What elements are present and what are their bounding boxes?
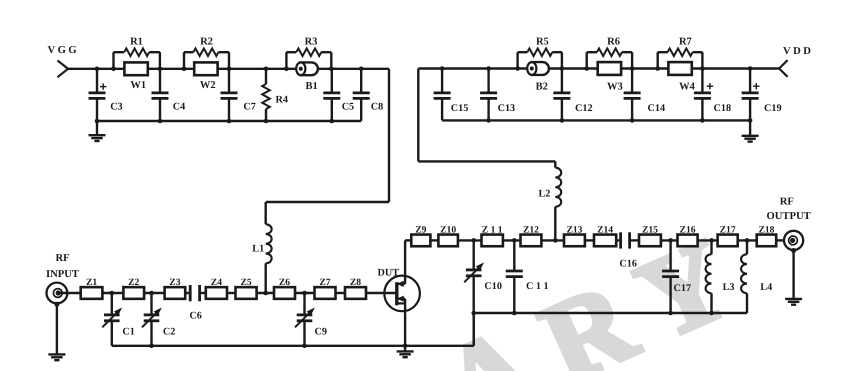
svg-text:VDD: VDD	[783, 46, 813, 57]
microstrip Z6	[274, 277, 295, 299]
microstrip Z13	[564, 225, 585, 247]
capacitor C12	[553, 69, 592, 123]
microstrip Z17	[718, 225, 738, 247]
svg-text:Z14: Z14	[597, 225, 613, 236]
svg-text:L1: L1	[252, 244, 264, 255]
wire	[776, 239, 784, 241]
ground under RF OUTPUT	[785, 248, 802, 305]
svg-text:R6: R6	[607, 37, 620, 48]
capacitor C8	[353, 67, 384, 122]
svg-text:C14: C14	[648, 103, 666, 114]
capacitor C16 (series)	[616, 232, 639, 269]
variable capacitor C2	[142, 293, 175, 348]
microstrip Z9	[411, 225, 430, 247]
svg-text:DUT: DUT	[378, 268, 400, 279]
svg-text:C17: C17	[674, 283, 692, 294]
svg-text:Z7: Z7	[319, 277, 330, 288]
trimmer W1	[111, 62, 162, 91]
svg-text:C7: C7	[243, 102, 255, 113]
svg-text:C9: C9	[315, 327, 327, 338]
svg-text:Z10: Z10	[440, 225, 456, 236]
svg-text:Z12: Z12	[523, 225, 539, 236]
svg-text:C8: C8	[371, 102, 383, 113]
svg-text:VGG: VGG	[48, 45, 80, 56]
svg-text:L4: L4	[760, 282, 772, 293]
wire	[257, 291, 274, 296]
svg-text:C3: C3	[110, 102, 122, 113]
resistor R1	[114, 37, 160, 69]
microstrip Z10	[438, 225, 458, 247]
capacitor C5	[323, 69, 354, 123]
inductor L3	[706, 240, 735, 315]
svg-text:OUTPUT: OUTPUT	[767, 211, 811, 222]
VGG input arrow	[58, 61, 69, 78]
ground under C19	[742, 120, 759, 141]
svg-text:C15: C15	[451, 103, 469, 114]
inductor L4	[741, 240, 772, 313]
svg-text:Z13: Z13	[566, 225, 582, 236]
capacitor C13	[480, 66, 515, 123]
microstrip Z2	[123, 277, 144, 299]
variable capacitor C10	[464, 240, 502, 345]
svg-text:W2: W2	[200, 80, 216, 91]
microstrip Z3	[165, 277, 186, 299]
svg-text:R1: R1	[130, 37, 143, 48]
wire	[227, 292, 236, 294]
svg-text:R5: R5	[536, 37, 549, 48]
ferrite bead B2	[515, 62, 564, 92]
svg-text:W1: W1	[130, 80, 146, 91]
capacitor C15	[434, 66, 469, 120]
wire left bias bottom bus	[97, 120, 361, 122]
wire VGG rail	[67, 68, 390, 70]
svg-text:W3: W3	[607, 82, 623, 93]
wire gate lead	[366, 292, 395, 294]
trimmer W4	[655, 62, 704, 92]
svg-text:C13: C13	[498, 103, 516, 114]
svg-text:B2: B2	[536, 82, 548, 93]
svg-text:Z9: Z9	[415, 225, 426, 236]
svg-text:C19: C19	[764, 103, 782, 114]
capacitor C19 (electrolytic)	[742, 66, 782, 123]
capacitor C18 (electrolytic)	[694, 69, 731, 123]
wire	[698, 238, 718, 243]
microstrip Z7	[315, 277, 336, 299]
RF INPUT connector	[47, 283, 81, 304]
resistor R7	[658, 37, 703, 69]
trimmer W3	[584, 62, 634, 92]
wire drain line	[405, 239, 411, 241]
microstrip Z4	[206, 277, 227, 299]
svg-text:Z4: Z4	[211, 277, 222, 288]
capacitor C6 (series)	[185, 285, 206, 322]
svg-text:Z15: Z15	[642, 225, 658, 236]
VDD output arrow	[779, 60, 788, 77]
wire ground bus lower	[112, 313, 474, 346]
svg-text:R7: R7	[679, 37, 692, 48]
capacitor C4	[152, 69, 186, 123]
svg-text:C16: C16	[619, 259, 637, 270]
wire right bias bottom bus	[442, 119, 750, 121]
microstrip Z1	[81, 277, 103, 299]
svg-text:C10: C10	[484, 281, 502, 292]
ferrite bead B1	[284, 62, 334, 92]
variable capacitor C1	[102, 293, 135, 346]
resistor R3	[286, 37, 331, 69]
wire	[458, 238, 482, 243]
svg-text:Z18: Z18	[758, 225, 774, 236]
microstrip Z18	[757, 225, 777, 247]
trimmer W2	[182, 62, 232, 91]
capacitor C7	[221, 69, 256, 123]
svg-text:C2: C2	[163, 327, 175, 338]
svg-text:Z5: Z5	[240, 277, 251, 288]
wire	[144, 291, 165, 296]
svg-text:B1: B1	[305, 81, 317, 92]
capacitor C14	[624, 69, 665, 123]
svg-text:C12: C12	[575, 103, 593, 114]
microstrip Z11	[482, 225, 503, 247]
variable capacitor C9	[295, 293, 327, 348]
capacitor C11	[506, 240, 549, 315]
svg-text:Z2: Z2	[128, 277, 139, 288]
wire	[336, 292, 346, 294]
wire gate bias feed	[266, 69, 389, 225]
resistor R2	[184, 37, 229, 69]
svg-text:L3: L3	[723, 282, 735, 293]
ground under DUT	[397, 344, 414, 358]
wire	[585, 239, 594, 241]
microstrip Z15	[639, 225, 661, 247]
svg-text:R3: R3	[305, 37, 318, 48]
svg-text:Z1: Z1	[86, 277, 97, 288]
wire drain bias feed	[418, 69, 555, 168]
svg-text:Z6: Z6	[279, 277, 290, 288]
svg-text:C18: C18	[714, 103, 732, 114]
inductor L1	[252, 224, 271, 293]
microstrip Z8	[345, 277, 366, 299]
svg-text:C4: C4	[173, 102, 185, 113]
svg-text:Z3: Z3	[169, 277, 180, 288]
resistor R6	[587, 37, 632, 69]
svg-text:RF: RF	[55, 253, 69, 264]
resistor R5	[518, 37, 562, 69]
RF OUTPUT connector	[784, 231, 803, 250]
microstrip Z16	[678, 225, 698, 247]
wire	[295, 291, 315, 296]
svg-text:Z 1 1: Z 1 1	[482, 225, 503, 236]
svg-text:C6: C6	[189, 311, 201, 322]
wire	[503, 238, 521, 243]
svg-text:C1: C1	[122, 327, 134, 338]
svg-text:INPUT: INPUT	[46, 269, 79, 280]
transistor DUT	[378, 240, 420, 345]
microstrip Z14	[594, 225, 616, 247]
svg-text:Z17: Z17	[720, 225, 736, 236]
svg-text:L2: L2	[539, 189, 551, 200]
microstrip Z5	[236, 277, 257, 299]
wire VDD rail	[418, 67, 779, 69]
svg-text:C 1 1: C 1 1	[526, 281, 549, 292]
watermark text ARY (part of PRELIMINARY)	[425, 204, 772, 371]
wire	[541, 238, 564, 243]
wire	[102, 291, 123, 296]
ground under RF INPUT	[48, 302, 65, 361]
svg-text:R4: R4	[276, 95, 288, 106]
wire	[661, 238, 678, 243]
capacitor C17	[662, 240, 691, 315]
svg-text:Z16: Z16	[680, 225, 696, 236]
svg-text:W4: W4	[679, 82, 696, 93]
inductor L2	[539, 168, 562, 241]
svg-text:C5: C5	[342, 102, 354, 113]
wire	[738, 238, 757, 243]
wire	[430, 239, 438, 241]
ground under C3	[89, 121, 106, 141]
svg-text:R2: R2	[200, 37, 213, 48]
capacitor C3 (electrolytic)	[89, 67, 123, 124]
svg-text:Z8: Z8	[350, 277, 361, 288]
microstrip Z12	[521, 225, 542, 247]
resistor R4	[262, 67, 288, 124]
wire right ground bus	[474, 312, 747, 314]
svg-text:RF: RF	[780, 197, 794, 208]
